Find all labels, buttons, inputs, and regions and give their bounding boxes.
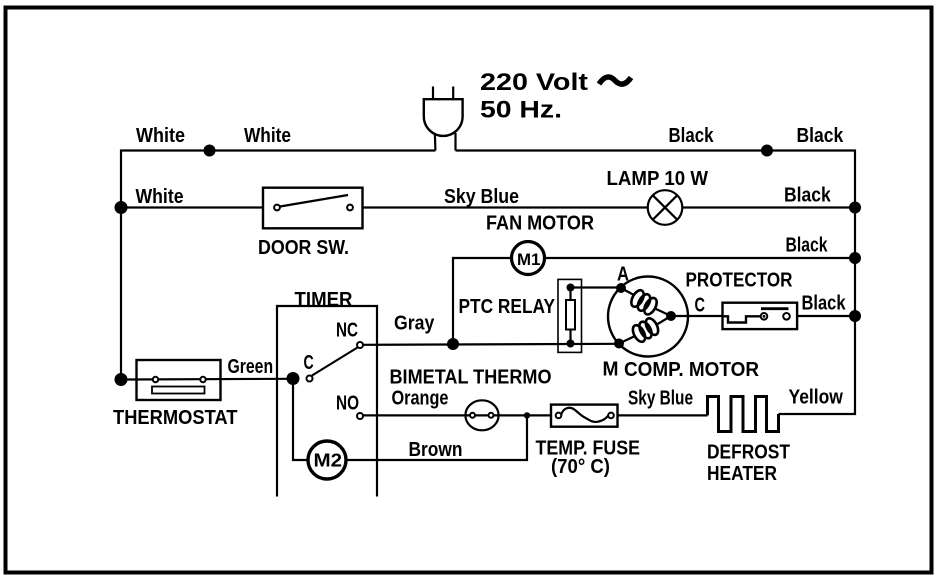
wire: protector to bus [797, 315, 855, 317]
wire: brown run [346, 415, 527, 460]
wire: sky blue row2 to lamp [363, 206, 649, 208]
svg-text:M2: M2 [314, 450, 343, 470]
svg-text:Orange: Orange [392, 388, 449, 410]
svg-text:White: White [136, 186, 184, 208]
timer common node C [287, 372, 300, 385]
wire: gray run NC to comp motor M [362, 344, 619, 345]
svg-text:Black: Black [784, 185, 832, 207]
terminal C [666, 311, 676, 321]
temp fuse [551, 405, 618, 427]
svg-text:(70° C): (70° C) [551, 456, 610, 478]
timer motor M2 [308, 441, 346, 479]
svg-text:Gray: Gray [394, 313, 435, 335]
defrost heater [708, 397, 779, 432]
svg-text:Yellow: Yellow [789, 387, 844, 409]
svg-text:Black: Black [669, 125, 715, 147]
timer box [277, 306, 377, 497]
power plug P1 [424, 87, 463, 151]
wire: orange run NO to fuse [362, 414, 551, 416]
protector [723, 303, 798, 329]
svg-text:White: White [136, 125, 185, 147]
wire: PTC top to terminal A [571, 286, 622, 288]
timer switch blade [312, 348, 358, 376]
node: junction top-left [204, 145, 216, 157]
wire: top-right black run and right bus [456, 151, 856, 415]
wire: top-left white run and left vertical [121, 151, 435, 380]
terminal M [614, 339, 624, 349]
svg-text:Sky Blue: Sky Blue [628, 388, 693, 410]
svg-text:C: C [304, 352, 314, 374]
node: thermostat junction [115, 373, 128, 386]
wire: row2 white to door switch [121, 206, 263, 208]
svg-text:LAMP 10 W: LAMP 10 W [607, 168, 709, 190]
coil: main winding [621, 288, 633, 295]
timer contact NC [357, 342, 363, 348]
coil: aux winding [619, 337, 634, 344]
svg-text:A: A [617, 264, 629, 286]
svg-text:M1: M1 [517, 250, 540, 269]
svg-text:THERMOSTAT: THERMOSTAT [113, 407, 238, 429]
node: left junction row2 [115, 201, 128, 214]
bimetal thermo [465, 400, 498, 430]
svg-text:FAN MOTOR: FAN MOTOR [486, 213, 594, 235]
comp motor [608, 277, 688, 357]
node: bus junction protector row [849, 310, 861, 322]
svg-text:HEATER: HEATER [707, 463, 777, 485]
node: bus junction row2 [849, 202, 861, 214]
wire: green run to timer C [121, 378, 293, 381]
terminal A [616, 283, 626, 293]
door switch DOOR SW. [263, 188, 363, 229]
svg-text:Sky Blue: Sky Blue [444, 186, 519, 208]
svg-text:NO: NO [336, 393, 359, 415]
svg-text:NC: NC [336, 320, 358, 342]
svg-text:DEFROST: DEFROST [707, 442, 790, 464]
svg-text:Black: Black [797, 125, 845, 147]
label 220 Volt ~ 50 Hz [480, 69, 631, 124]
PTC relay [558, 279, 582, 352]
node: junction gray / fan branch [447, 338, 459, 350]
timer contact NO [357, 413, 363, 419]
svg-text:50 Hz.: 50 Hz. [480, 97, 562, 124]
node: bus junction row3 [849, 252, 861, 264]
node: junction top-right [761, 145, 773, 157]
lamp LAMP 10 W [648, 190, 683, 225]
svg-text:TIMER: TIMER [295, 289, 354, 311]
node: orange/brown junction [524, 412, 530, 418]
svg-text:PROTECTOR: PROTECTOR [686, 270, 793, 292]
svg-text:Black: Black [786, 235, 829, 257]
svg-text:220 Volt: 220 Volt [480, 69, 588, 96]
wire: M1 to right bus [545, 257, 856, 259]
svg-text:PTC RELAY: PTC RELAY [459, 296, 556, 318]
wire: sky blue run fuse to heater [618, 414, 708, 416]
svg-text:COMP. MOTOR: COMP. MOTOR [624, 359, 760, 381]
svg-text:M: M [603, 359, 619, 381]
svg-text:Black: Black [802, 293, 847, 315]
svg-text:BIMETAL THERMO: BIMETAL THERMO [390, 367, 552, 389]
thermostat [137, 360, 221, 400]
svg-text:Brown: Brown [409, 439, 463, 461]
wire: C to protector [671, 315, 723, 317]
svg-text:White: White [244, 125, 291, 147]
svg-text:C: C [695, 295, 706, 317]
svg-text:DOOR SW.: DOOR SW. [258, 237, 349, 259]
wire: lamp to right bus [682, 206, 855, 208]
wire: fan motor branch [453, 258, 512, 344]
wire: timer C down to M2 [293, 379, 308, 461]
fan motor M1 [512, 242, 545, 275]
svg-text:Green: Green [228, 356, 274, 378]
